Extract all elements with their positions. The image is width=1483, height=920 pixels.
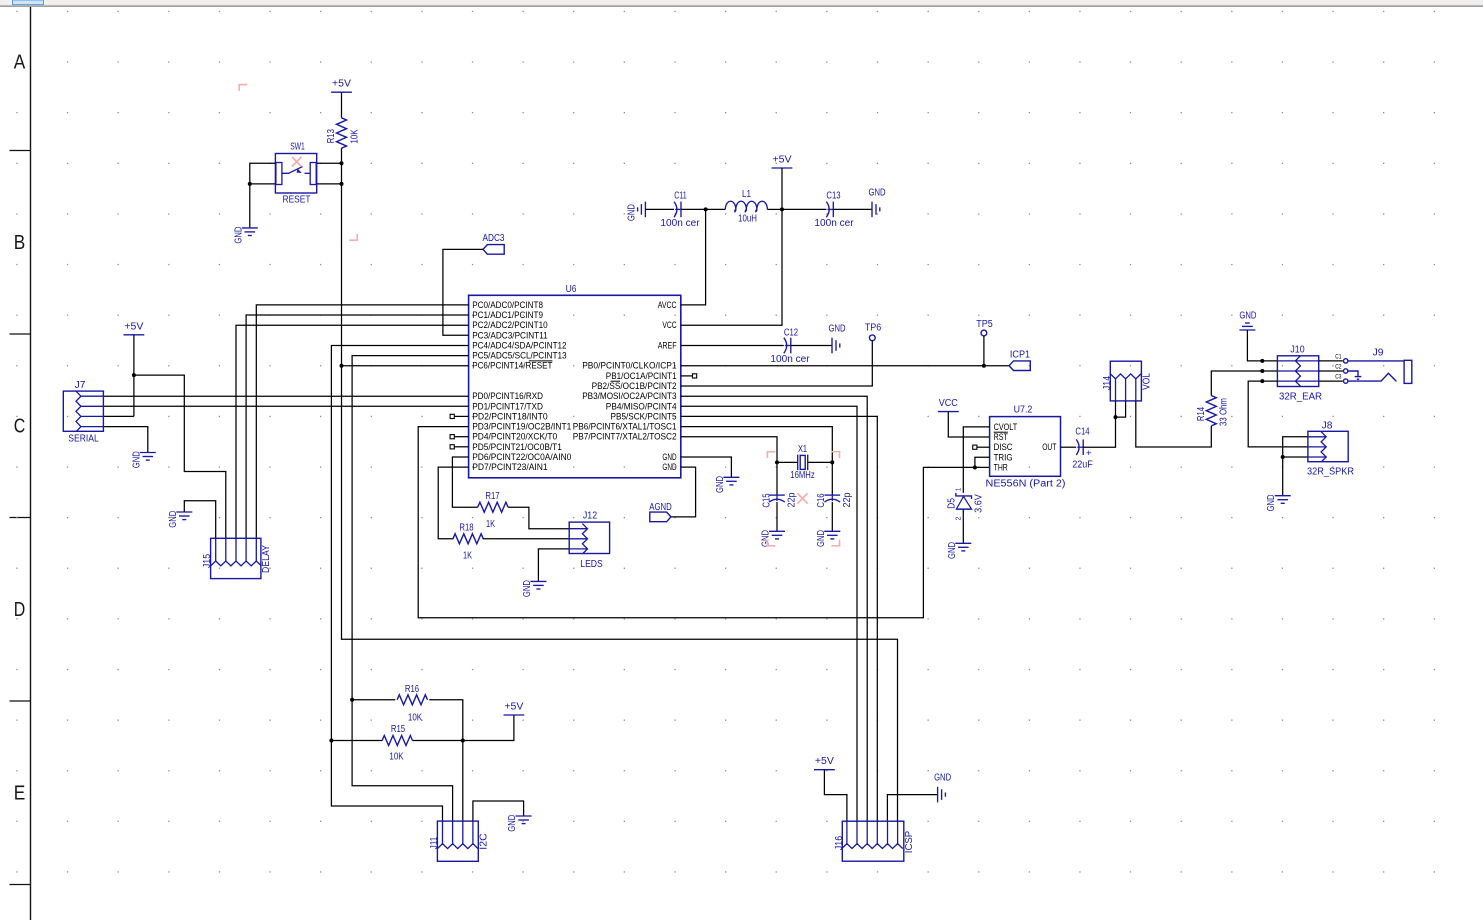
ground GND below SW1	[242, 227, 258, 229]
wire J10 pin1 to J9	[1319, 360, 1343, 362]
svg-text:J14: J14	[1102, 376, 1113, 391]
svg-text:ICSP: ICSP	[904, 830, 915, 853]
svg-text:PD1/PCINT17/TXD: PD1/PCINT17/TXD	[472, 401, 543, 411]
connector J11 box	[437, 821, 478, 861]
svg-text:PB4/MISO/PCINT4: PB4/MISO/PCINT4	[606, 401, 677, 411]
connector J7 pins	[76, 391, 81, 432]
connector J16 box	[842, 821, 904, 861]
inductor L1	[725, 201, 767, 211]
wire junction-L1	[706, 208, 726, 210]
wire SW1 top-right	[317, 162, 342, 164]
svg-text:PD5/PCINT21/OC0B/T1: PD5/PCINT21/OC0B/T1	[472, 442, 562, 452]
wire J8 pin3	[1283, 456, 1308, 458]
connector J14 box	[1110, 361, 1141, 401]
svg-text:C13: C13	[826, 191, 841, 202]
svg-text:J7: J7	[75, 380, 86, 391]
svg-text:B: B	[14, 232, 26, 254]
svg-text:U6: U6	[566, 284, 577, 295]
wire PB3 to J16 pin3	[681, 396, 867, 821]
wire PB6 to crystal	[681, 427, 833, 463]
wire PB0 ICP1 row	[681, 365, 1009, 367]
wire D5 to gnd	[962, 509, 964, 543]
svg-text:AGND: AGND	[649, 502, 671, 513]
svg-text:22p: 22p	[842, 492, 853, 507]
junction SW1 right top	[340, 161, 344, 165]
svg-text:GND: GND	[1239, 311, 1256, 322]
connector J15 box	[211, 538, 261, 578]
capacitor C11	[674, 202, 677, 218]
svg-text:PD7/PCINT23/AIN1: PD7/PCINT23/AIN1	[472, 462, 548, 472]
ruler tick 5	[10, 884, 31, 886]
connector J10 box	[1277, 356, 1318, 387]
svg-text:R17: R17	[485, 491, 500, 502]
svg-text:100n cer: 100n cer	[770, 354, 810, 365]
svg-text:GND: GND	[816, 530, 827, 547]
svg-text:TP5: TP5	[976, 319, 993, 330]
wire TP5 drop	[983, 336, 985, 366]
wire +5V to J16 pin1	[824, 770, 847, 822]
wire PB7 to crystal	[681, 437, 777, 463]
svg-text:GND: GND	[662, 462, 677, 472]
svg-text:GND: GND	[168, 511, 179, 528]
wire J14 pin3 to R14	[1136, 401, 1212, 447]
wire PC4 to J11 pin1	[331, 346, 468, 822]
junction crystal right	[830, 460, 834, 464]
net tag ICP1	[1009, 361, 1030, 371]
svg-text:J15: J15	[202, 554, 213, 569]
svg-text:E: E	[14, 783, 26, 805]
svg-text:R14: R14	[1196, 407, 1207, 422]
wire R13 down / reset net	[342, 148, 898, 821]
pink marker corner X1 BR	[832, 540, 840, 546]
svg-text:VCC: VCC	[662, 320, 677, 330]
connector J16 pins	[842, 844, 903, 849]
svg-text:PD2/PCINT18/INT0: PD2/PCINT18/INT0	[472, 411, 548, 421]
wire J12 pin3 to gnd	[538, 549, 569, 582]
wire PD3 to THR/TRIG	[418, 427, 989, 618]
svg-text:2: 2	[954, 517, 963, 521]
svg-text:PB7/PCINT7/XTAL2/TOSC2: PB7/PCINT7/XTAL2/TOSC2	[573, 432, 677, 442]
nc stub PD row 11	[454, 415, 468, 417]
svg-text:GND: GND	[507, 815, 518, 832]
wire J10 pin3 to J9	[1319, 380, 1343, 382]
ground GND below C16	[824, 530, 840, 532]
wire J15 pin5 to PC0	[256, 305, 468, 538]
svg-text:ICP1: ICP1	[1010, 350, 1031, 361]
svg-text:C11: C11	[674, 191, 687, 202]
pink marker corner SW1 BR	[349, 234, 357, 240]
svg-text:+5V: +5V	[773, 155, 792, 166]
SW1 lever	[282, 167, 303, 174]
svg-text:GND: GND	[869, 187, 886, 198]
svg-text:J11: J11	[429, 836, 440, 849]
wire C16 bottom	[831, 502, 833, 531]
wire +5V tap to J15 pin2	[134, 375, 226, 538]
pink marker X SW1	[292, 157, 302, 167]
wire PD7 to R18	[438, 467, 468, 539]
power +5V near J11	[504, 714, 525, 716]
svg-text:R15: R15	[391, 724, 406, 735]
svg-text:PC3/ADC3/PCINT11: PC3/ADC3/PCINT11	[472, 330, 548, 340]
svg-text:GND: GND	[715, 476, 726, 493]
svg-text:TRIG: TRIG	[994, 452, 1013, 462]
wire J14 pin2 bend	[1116, 401, 1126, 417]
junction J8	[1281, 455, 1285, 459]
svg-text:GND: GND	[522, 580, 533, 597]
wire to J11 pin3	[462, 741, 464, 822]
nc square PD row 14	[450, 445, 454, 449]
pink marker corner X1 TL	[767, 452, 775, 458]
ground GND below C15	[769, 530, 785, 532]
svg-text:PB3/MOSI/OC2A/PCINT3: PB3/MOSI/OC2A/PCINT3	[582, 391, 676, 401]
nc square PD row 13	[450, 435, 454, 439]
crystal X1	[797, 455, 799, 471]
junction TRIG/THR	[973, 466, 977, 470]
svg-text:C16: C16	[816, 493, 827, 508]
junction R15 left	[329, 739, 333, 743]
svg-text:33 Ohm: 33 Ohm	[1219, 398, 1230, 426]
wire PB5 to J16 pin4	[681, 416, 878, 821]
wire OUT to C14	[1061, 446, 1077, 448]
resistor R17	[478, 502, 508, 512]
wire R16 right	[429, 700, 463, 741]
connector J7 box	[63, 391, 103, 431]
svg-text:GND: GND	[131, 451, 142, 468]
wire PD0 row	[103, 395, 468, 397]
grid dots (decorative)	[16, 11, 17, 12]
svg-text:GND: GND	[626, 204, 637, 221]
ruler tick 2	[10, 333, 31, 335]
wire PD1 row	[103, 405, 468, 407]
wire J15 pin4 to PC1	[246, 315, 469, 538]
svg-text:LEDS: LEDS	[580, 559, 603, 570]
svg-text:GND: GND	[662, 452, 677, 462]
junction crystal left	[775, 460, 779, 464]
svg-text:PD4/PCINT20/XCK/T0: PD4/PCINT20/XCK/T0	[472, 432, 557, 442]
wire AVCC riser	[681, 209, 706, 305]
connector J12 box	[569, 522, 609, 553]
junction SW1 right bottom	[340, 182, 344, 186]
svg-text:1: 1	[954, 488, 963, 491]
net tag AGND	[650, 512, 671, 522]
wire L1-junction	[767, 208, 782, 210]
power +5V near J7	[124, 334, 145, 336]
svg-text:DELAY: DELAY	[261, 545, 272, 573]
active tab highlight	[13, 0, 44, 5]
junction at AVCC rail	[704, 207, 708, 211]
diode D5 zener	[956, 493, 972, 499]
resistor R14	[1206, 396, 1216, 426]
wire junction-C13	[782, 208, 826, 210]
wire C13-gnd	[833, 208, 872, 210]
svg-text:GND: GND	[934, 773, 951, 784]
wire U6 GND2 to AGND	[671, 467, 696, 517]
resistor R16	[397, 695, 427, 705]
nc stub DISC	[977, 446, 990, 448]
svg-text:PC5/ADC5/SCL/PCINT13: PC5/ADC5/SCL/PCINT13	[472, 351, 566, 361]
wire +5V to J7 pin3	[133, 335, 135, 417]
testpoint TP5	[981, 330, 987, 336]
svg-text:PD0/PCINT16/RXD: PD0/PCINT16/RXD	[472, 391, 543, 401]
wire AREF to C12	[681, 345, 784, 347]
svg-text:PC0/ADC0/PCINT8: PC0/ADC0/PCINT8	[472, 300, 543, 310]
svg-text:THR: THR	[994, 463, 1009, 473]
wire J11 pin4 to gnd	[473, 801, 524, 821]
svg-text:PB5/SCK/PCINT5: PB5/SCK/PCINT5	[611, 411, 677, 421]
junction J10 pin2	[1260, 369, 1264, 373]
wire R14 top to J10 pin2	[1211, 371, 1277, 396]
svg-text:PC6/PCINT14/RESET: PC6/PCINT14/RESET	[472, 361, 553, 371]
wire VCC riser	[681, 209, 782, 325]
IC U7.2 box	[990, 417, 1061, 477]
svg-text:10K: 10K	[408, 713, 422, 724]
nc square PB1	[693, 374, 697, 378]
pink marker corner X1 BL	[767, 540, 775, 546]
svg-text:C1: C1	[1335, 353, 1341, 360]
svg-text:A: A	[14, 52, 26, 74]
wire VCC to RST	[948, 412, 989, 437]
svg-text:AREF: AREF	[658, 341, 677, 351]
ground GND below J8	[1275, 495, 1291, 497]
svg-text:J16: J16	[834, 836, 845, 851]
pink marker corner SW1 TL	[239, 85, 247, 91]
svg-text:100n cer: 100n cer	[814, 218, 854, 229]
ground GND right of J16	[937, 787, 939, 803]
wire J14 pin1 drop	[1115, 401, 1117, 417]
pink marker corner X1 TR	[832, 452, 840, 458]
svg-text:RST: RST	[994, 432, 1009, 442]
wire CVOLT to D5	[963, 427, 989, 493]
wire gnd to J10 pin1	[1247, 330, 1277, 361]
wire J10 pin3 to J8 pin2	[1248, 381, 1308, 447]
svg-text:C2: C2	[1335, 363, 1341, 370]
power VCC	[938, 411, 959, 413]
nc square DISC	[973, 445, 977, 449]
nc stub PD row 14	[454, 446, 468, 448]
svg-text:AVCC: AVCC	[658, 300, 677, 310]
ground GND left of C11	[644, 202, 646, 218]
wire gnd to J15 pin1	[184, 501, 215, 539]
svg-text:D: D	[14, 599, 26, 621]
wire J8 pin1 to gnd	[1283, 437, 1308, 496]
SW1 right contact	[310, 163, 316, 185]
ground GND above J10	[1245, 322, 1250, 324]
ground GND below D5	[955, 542, 971, 544]
svg-text:C15: C15	[762, 493, 773, 508]
svg-text:GND: GND	[947, 542, 958, 559]
svg-text:GND: GND	[761, 530, 772, 547]
connector J11 pins	[437, 844, 478, 849]
svg-text:16MHz: 16MHz	[790, 470, 814, 481]
svg-text:+: +	[1086, 448, 1092, 459]
svg-text:D5: D5	[947, 498, 958, 509]
svg-text:GND: GND	[1266, 494, 1277, 511]
SW1 left contact	[276, 163, 282, 185]
power +5V for R13	[331, 91, 352, 93]
svg-text:R16: R16	[405, 684, 420, 695]
connector J10 pins	[1295, 356, 1300, 386]
svg-text:J10: J10	[1290, 344, 1305, 355]
svg-text:PB1/OC1A/PCINT1: PB1/OC1A/PCINT1	[606, 371, 677, 381]
junction J10 pin3	[1260, 379, 1264, 383]
wire J7 pin4 to gnd	[103, 427, 147, 453]
wire R15 left stub	[331, 740, 382, 742]
svg-text:ADC3: ADC3	[483, 233, 505, 244]
junction at VCC rail	[780, 207, 784, 211]
svg-text:DISC: DISC	[994, 442, 1013, 452]
wire C15 top	[776, 462, 778, 495]
testpoint TP6	[869, 335, 875, 341]
junction J14	[1114, 415, 1118, 419]
connector J15 pins	[211, 561, 262, 566]
svg-text:PD3/PCINT19/OC2B/INT1: PD3/PCINT19/OC2B/INT1	[472, 422, 571, 432]
window chrome top strip	[0, 0, 1483, 5]
svg-text:22p: 22p	[787, 492, 798, 507]
svg-text:PD6/PCINT22/OC0A/AIN0: PD6/PCINT22/OC0A/AIN0	[472, 452, 571, 462]
svg-text:L1: L1	[742, 189, 751, 200]
wire C15 bottom	[776, 502, 778, 531]
connector J8 pins	[1321, 432, 1326, 462]
svg-text:10uH: 10uH	[738, 214, 757, 225]
wire U6 GND1	[681, 457, 732, 477]
wire RESET row	[342, 365, 469, 367]
junction TP5	[982, 364, 986, 368]
wire PC5 to J11 pin2	[352, 356, 469, 821]
wire +5V to R13	[341, 92, 343, 118]
wire SW1 bottom-left	[250, 183, 276, 185]
wire R15 right to +5V	[412, 715, 514, 741]
svg-text:GND: GND	[829, 324, 846, 335]
capacitor C15	[769, 494, 785, 496]
wire SW1 bottom-right	[317, 183, 342, 185]
svg-text:I2C: I2C	[478, 833, 489, 849]
svg-text:J12: J12	[583, 511, 598, 522]
svg-text:32R_EAR: 32R_EAR	[1279, 391, 1322, 402]
svg-text:J8: J8	[1322, 420, 1333, 431]
wire R18 to J12 pin2	[483, 538, 569, 540]
junction RESET row	[340, 364, 344, 368]
svg-text:10K: 10K	[350, 129, 361, 143]
IC U6 ATmega box	[469, 295, 681, 478]
svg-text:R13: R13	[326, 129, 337, 144]
svg-text:PB6/PCINT6/XTAL1/TOSC1: PB6/PCINT6/XTAL1/TOSC1	[573, 422, 677, 432]
ruler tick 4	[10, 700, 31, 702]
net tag ADC3	[483, 245, 504, 255]
nc square PD row 11	[450, 414, 454, 418]
resistor R13	[337, 118, 347, 148]
nc stub PB1	[681, 375, 693, 377]
svg-text:RESET: RESET	[283, 195, 311, 206]
wire R16 left stub	[352, 699, 395, 701]
svg-text:PB0/PCINT0/CLKO/ICP1: PB0/PCINT0/CLKO/ICP1	[582, 361, 676, 371]
wire SW1 left to gnd	[249, 184, 251, 228]
svg-text:PC4/ADC4/SDA/PCINT12: PC4/ADC4/SDA/PCINT12	[472, 341, 566, 351]
junction R16 left	[350, 698, 354, 702]
svg-text:SERIAL: SERIAL	[68, 433, 99, 444]
pink marker X near C15	[797, 493, 807, 503]
svg-text:PC1/ADC1/PCINT9: PC1/ADC1/PCINT9	[472, 310, 543, 320]
svg-text:22uF: 22uF	[1072, 459, 1093, 470]
svg-text:U7.2: U7.2	[1014, 405, 1033, 416]
resistor R15	[382, 736, 412, 746]
wire PD6 to R17	[452, 457, 477, 507]
svg-text:+5V: +5V	[815, 756, 834, 767]
connector J12 pins	[582, 524, 587, 554]
wire C12 to gnd	[791, 345, 832, 347]
svg-text:TP6: TP6	[865, 323, 882, 334]
toolbar border line	[0, 5, 1483, 7]
wire crystal right	[808, 461, 833, 463]
capacitor C16	[825, 494, 841, 496]
switch SW1 box	[275, 154, 316, 194]
ruler tick 3	[10, 517, 31, 519]
wire J10 pin2 to J9	[1319, 370, 1343, 372]
capacitor C14 polarized	[1076, 439, 1079, 455]
svg-text:C12: C12	[784, 327, 799, 338]
wire C11-junction	[681, 208, 706, 210]
jack J9	[1344, 359, 1348, 363]
svg-text:100n cer: 100n cer	[660, 218, 700, 229]
wire +5V drop	[781, 168, 783, 209]
ground GND right of C12	[831, 338, 833, 354]
svg-text:10K: 10K	[389, 752, 403, 763]
svg-text:R18: R18	[459, 523, 474, 534]
wire TRIG bend	[975, 457, 990, 467]
svg-text:+5V: +5V	[124, 321, 143, 332]
power +5V top	[772, 167, 793, 169]
ruler tick 1	[10, 150, 31, 152]
svg-text:CVOLT: CVOLT	[994, 422, 1018, 432]
ground GND near J11	[516, 815, 532, 817]
svg-text:VCC: VCC	[939, 398, 958, 409]
connector J14 pins	[1110, 374, 1141, 379]
junction J10 pin1	[1260, 359, 1264, 363]
svg-text:X1: X1	[798, 444, 807, 455]
wire C14 to J14	[1083, 417, 1115, 447]
svg-text:3.6V: 3.6V	[974, 494, 985, 513]
svg-text:GND: GND	[233, 227, 244, 244]
svg-text:VOL: VOL	[1141, 373, 1152, 390]
junction +5V tap	[132, 373, 136, 377]
capacitor C12	[784, 338, 787, 354]
svg-text:C: C	[14, 416, 26, 438]
svg-text:1K: 1K	[463, 551, 472, 562]
junction SW1 left	[248, 182, 252, 186]
ground GND below J7	[140, 452, 156, 454]
svg-text:32R_SPKR: 32R_SPKR	[1307, 467, 1354, 478]
svg-text:SW1: SW1	[290, 141, 305, 152]
ground GND near J15	[176, 511, 192, 513]
wire crystal left	[777, 461, 798, 463]
resistor R18	[453, 534, 483, 544]
ground GND below J12	[530, 580, 546, 582]
svg-text:J9: J9	[1373, 347, 1384, 358]
svg-text:PC2/ADC2/PCINT10: PC2/ADC2/PCINT10	[472, 320, 548, 330]
power +5V near J16	[814, 769, 835, 771]
svg-text:NE556N (Part 2): NE556N (Part 2)	[986, 478, 1066, 489]
svg-text:PB2/SS/OC1B/PCINT2: PB2/SS/OC1B/PCINT2	[592, 381, 677, 391]
ground GND for U6 pin	[723, 476, 739, 478]
connector J8 box	[1308, 431, 1348, 461]
wire R17 to J12 pin1	[508, 507, 569, 529]
wire C11-gnd	[645, 208, 674, 210]
ground GND right of C13	[871, 202, 873, 218]
capacitor C13	[826, 202, 829, 218]
wire J15 pin3 to PC2	[236, 325, 469, 538]
wire SW1 top-left	[250, 163, 276, 184]
wire PB4 to J16 pin2	[681, 406, 857, 821]
junction J11 pin3 net	[461, 739, 465, 743]
